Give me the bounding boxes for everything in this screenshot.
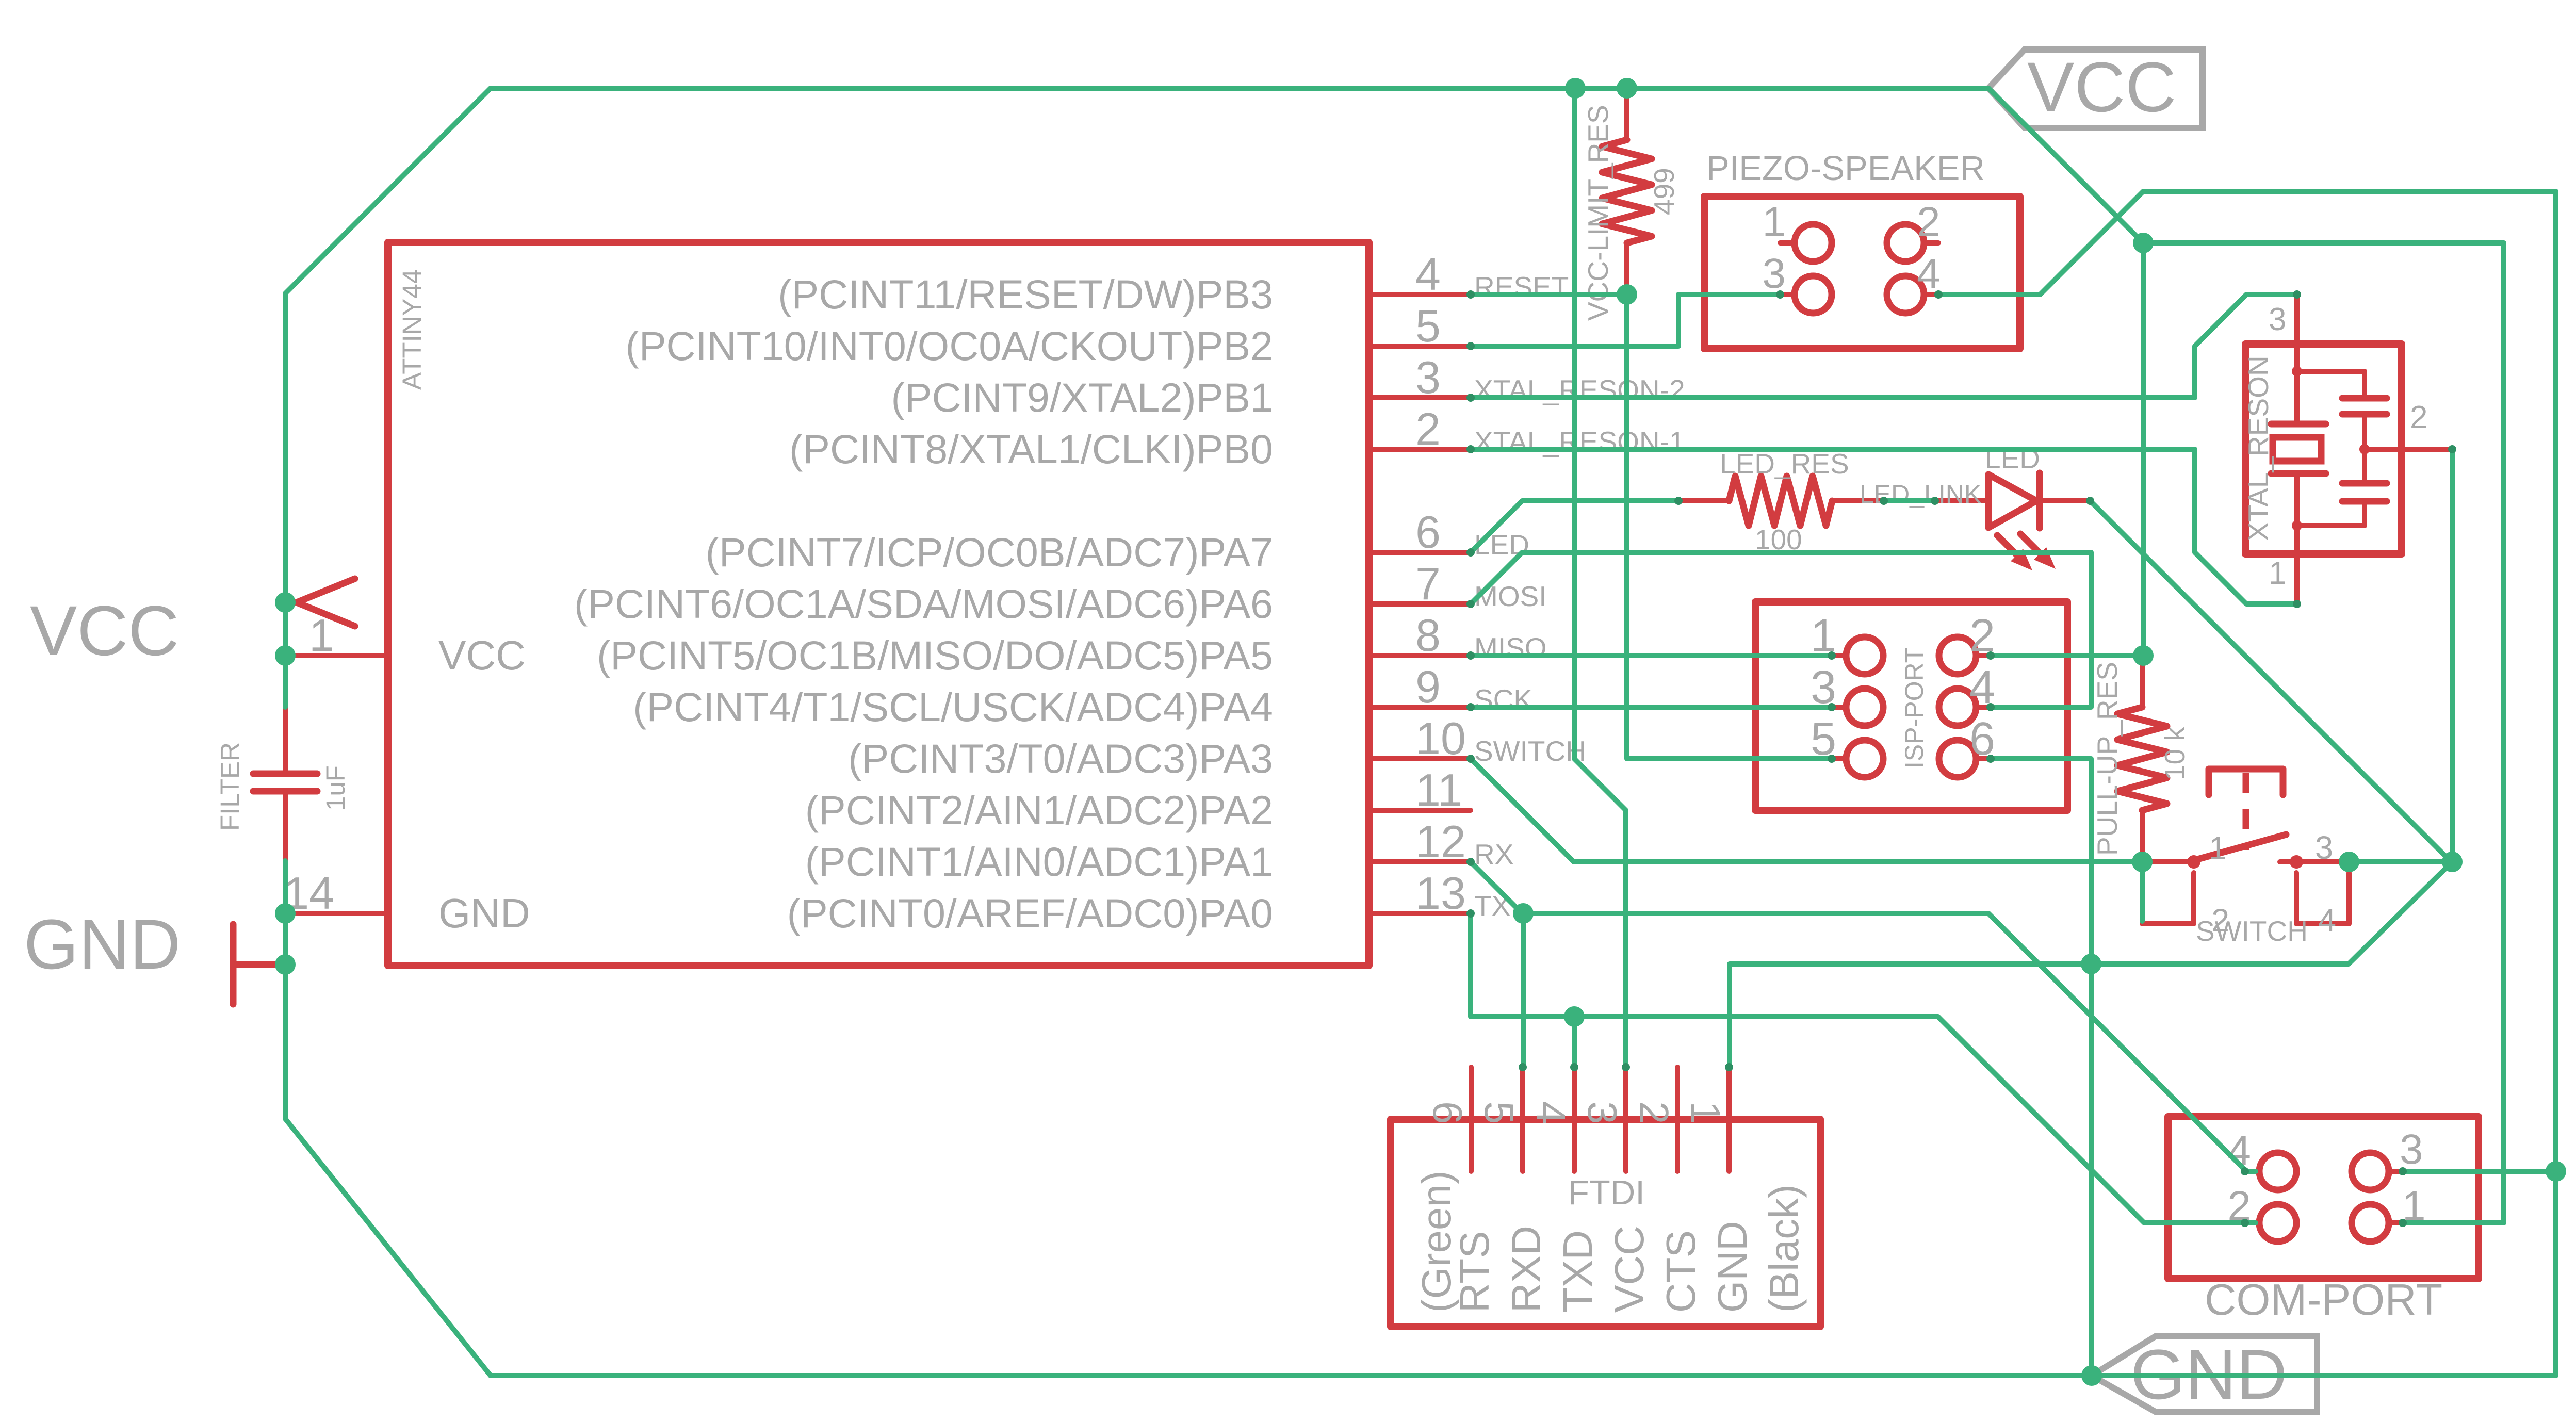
svg-text:1: 1	[1683, 1101, 1729, 1124]
svg-text:1: 1	[2269, 555, 2286, 591]
svg-text:4: 4	[1415, 249, 1441, 300]
svg-text:(Green): (Green)	[1413, 1170, 1459, 1313]
svg-text:XTAL_RESON-2: XTAL_RESON-2	[1474, 374, 1685, 406]
svg-text:3: 3	[2400, 1126, 2423, 1173]
svg-text:(PCINT1/AIN0/ADC1)PA1: (PCINT1/AIN0/ADC1)PA1	[805, 839, 1273, 885]
svg-text:ISP-PORT: ISP-PORT	[1900, 647, 1929, 769]
svg-text:RESET: RESET	[1474, 271, 1569, 303]
svg-text:VCC: VCC	[30, 592, 179, 671]
svg-text:3: 3	[2269, 302, 2286, 337]
svg-text:GND: GND	[438, 890, 530, 936]
svg-text:1: 1	[2209, 830, 2227, 867]
svg-text:9: 9	[1415, 661, 1441, 712]
svg-text:SCK: SCK	[1474, 683, 1532, 715]
svg-text:RXD: RXD	[1503, 1225, 1549, 1313]
svg-text:(PCINT11/RESET/DW)PB3: (PCINT11/RESET/DW)PB3	[778, 271, 1273, 317]
svg-text:3: 3	[1415, 352, 1441, 403]
svg-text:(PCINT0/AREF/ADC0)PA0: (PCINT0/AREF/ADC0)PA0	[787, 890, 1273, 936]
svg-text:RX: RX	[1474, 838, 1513, 870]
svg-text:2: 2	[1415, 403, 1441, 454]
svg-text:(PCINT5/OC1B/MISO/DO/ADC5)PA5: (PCINT5/OC1B/MISO/DO/ADC5)PA5	[597, 632, 1273, 678]
svg-text:VCC: VCC	[438, 632, 526, 678]
svg-text:LED_RES: LED_RES	[1720, 448, 1849, 480]
svg-text:VCC: VCC	[2027, 48, 2176, 127]
svg-text:MOSI: MOSI	[1474, 580, 1547, 612]
svg-text:LED_LINK: LED_LINK	[1860, 480, 1981, 509]
svg-text:6: 6	[1415, 506, 1441, 558]
svg-text:COM-PORT: COM-PORT	[2205, 1276, 2442, 1325]
svg-text:12: 12	[1415, 816, 1466, 867]
svg-text:(Black): (Black)	[1761, 1184, 1807, 1313]
svg-text:(PCINT2/AIN1/ADC2)PA2: (PCINT2/AIN1/ADC2)PA2	[805, 787, 1273, 833]
svg-text:7: 7	[1415, 558, 1441, 609]
svg-text:6: 6	[1425, 1101, 1471, 1124]
svg-text:(PCINT7/ICP/OC0B/ADC7)PA7: (PCINT7/ICP/OC0B/ADC7)PA7	[706, 529, 1273, 575]
svg-text:10: 10	[1415, 713, 1466, 764]
svg-text:11: 11	[1415, 764, 1462, 815]
svg-text:2: 2	[1631, 1101, 1677, 1124]
svg-text:(PCINT10/INT0/OC0A/CKOUT)PB2: (PCINT10/INT0/OC0A/CKOUT)PB2	[626, 323, 1273, 369]
svg-text:GND: GND	[1709, 1221, 1755, 1313]
svg-text:TXD: TXD	[1555, 1230, 1601, 1313]
svg-text:1: 1	[309, 610, 334, 661]
svg-text:(PCINT8/XTAL1/CLKI)PB0: (PCINT8/XTAL1/CLKI)PB0	[789, 426, 1273, 472]
svg-text:8: 8	[1415, 610, 1441, 661]
svg-text:XTAL_RESON-1: XTAL_RESON-1	[1474, 426, 1685, 457]
svg-text:3: 3	[2315, 830, 2333, 866]
svg-text:3: 3	[1762, 250, 1786, 297]
svg-text:2: 2	[2211, 903, 2229, 939]
svg-text:(PCINT4/T1/SCL/USCK/ADC4)PA4: (PCINT4/T1/SCL/USCK/ADC4)PA4	[633, 684, 1273, 730]
svg-text:PULL-UP_RES: PULL-UP_RES	[2091, 662, 2123, 856]
svg-text:PIEZO-SPEAKER: PIEZO-SPEAKER	[1706, 149, 1985, 188]
svg-text:3: 3	[1579, 1101, 1625, 1124]
svg-text:(PCINT3/T0/ADC3)PA3: (PCINT3/T0/ADC3)PA3	[848, 735, 1273, 781]
svg-text:5: 5	[1476, 1101, 1522, 1124]
svg-text:499: 499	[1648, 168, 1680, 215]
svg-text:GND: GND	[24, 905, 181, 984]
svg-text:(PCINT9/XTAL2)PB1: (PCINT9/XTAL2)PB1	[891, 374, 1273, 420]
svg-text:10 k: 10 k	[2159, 727, 2191, 780]
svg-text:VCC: VCC	[1606, 1225, 1652, 1313]
svg-text:ATTINY44: ATTINY44	[397, 269, 427, 390]
svg-text:2: 2	[1917, 199, 1941, 246]
svg-text:FTDI: FTDI	[1568, 1173, 1645, 1212]
svg-text:VCC-LIMIT_RES: VCC-LIMIT_RES	[1582, 105, 1614, 321]
svg-text:4: 4	[2318, 903, 2336, 939]
svg-text:MISO: MISO	[1474, 632, 1547, 664]
svg-text:1: 1	[1762, 199, 1786, 246]
svg-text:(PCINT6/OC1A/SDA/MOSI/ADC6)PA6: (PCINT6/OC1A/SDA/MOSI/ADC6)PA6	[574, 581, 1273, 627]
svg-text:4: 4	[1917, 250, 1941, 297]
svg-text:13: 13	[1415, 868, 1466, 919]
svg-text:2: 2	[2410, 400, 2427, 435]
svg-text:CTS: CTS	[1658, 1230, 1704, 1313]
svg-text:XTAL_RESON: XTAL_RESON	[2242, 355, 2274, 541]
svg-text:1uF: 1uF	[321, 765, 350, 811]
svg-text:4: 4	[1528, 1101, 1574, 1124]
svg-text:5: 5	[1415, 300, 1441, 351]
svg-text:SWITCH: SWITCH	[1474, 735, 1586, 767]
svg-text:FILTER: FILTER	[215, 742, 244, 831]
